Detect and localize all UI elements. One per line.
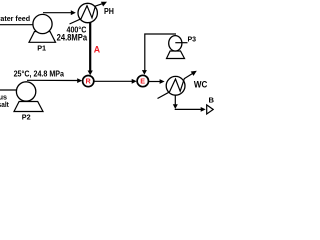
svg-text:A: A (94, 44, 101, 54)
svg-text:PH: PH (104, 7, 114, 16)
svg-text:E: E (140, 77, 145, 86)
wire: R to E with arrowhead (94, 79, 136, 84)
wire: PH down to node R (stream A) (88, 22, 93, 75)
node R (83, 76, 94, 87)
svg-text:WC: WC (194, 79, 208, 89)
wire: P1 outlet to PH with arrowhead (43, 10, 76, 15)
wire: WC down then right to B (173, 95, 206, 112)
pump P2 (14, 82, 43, 112)
svg-text:water feed: water feed (0, 14, 30, 23)
heater PH (70, 2, 108, 24)
svg-text:P3: P3 (188, 35, 197, 43)
svg-text:25°C, 24.8 MPa: 25°C, 24.8 MPa (14, 69, 65, 79)
svg-text:salt: salt (0, 100, 9, 109)
connector B (off-page triangle) (207, 105, 214, 114)
wire: P2 outlet to node R with arrowhead (27, 78, 82, 83)
svg-text:24.8MPa: 24.8MPa (57, 33, 88, 43)
wire: P3 down to E (riser with corner) (142, 34, 176, 75)
wire: water feed inlet stream (0, 24, 43, 26)
wire: aqueous salt inlet stream (0, 89, 27, 91)
pump P1 (29, 14, 56, 42)
wire: E to WC with arrowhead (149, 79, 165, 84)
cooler WC (158, 71, 197, 99)
svg-text:P2: P2 (22, 112, 31, 120)
node E (137, 75, 148, 86)
svg-text:B: B (209, 95, 215, 104)
svg-text:P1: P1 (37, 43, 46, 52)
svg-text:R: R (86, 77, 92, 86)
pump P3 (167, 36, 188, 59)
